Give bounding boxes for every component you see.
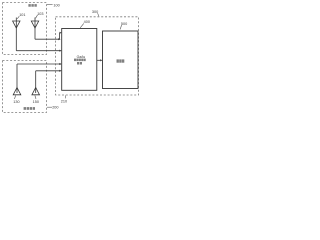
svg-text:103: 103 <box>37 12 43 16</box>
svg-text:GaAs: GaAs <box>77 55 86 59</box>
svg-text:400: 400 <box>84 20 90 24</box>
svg-text:300: 300 <box>92 10 98 14</box>
svg-text:500: 500 <box>121 22 127 26</box>
svg-text:200: 200 <box>52 105 58 109</box>
svg-text:210: 210 <box>61 100 67 104</box>
svg-text:101: 101 <box>19 13 25 17</box>
svg-text:100: 100 <box>53 3 59 7</box>
svg-text:150: 150 <box>33 100 39 104</box>
svg-text:130: 130 <box>13 100 19 104</box>
